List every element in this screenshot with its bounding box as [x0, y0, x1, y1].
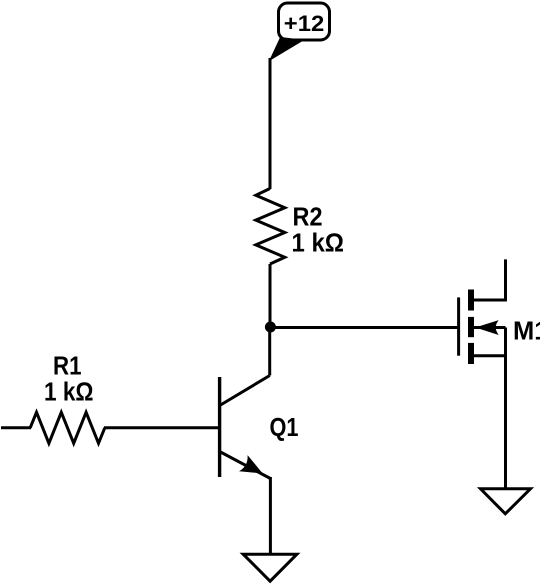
wire M1 source to ground: [504, 328, 507, 490]
resistor R1 left stub wire: [1, 426, 31, 429]
mosfet M1 body arrow: [477, 321, 498, 334]
wire R2 to node: [269, 264, 272, 330]
transistor Q1 base bar: [218, 377, 221, 477]
mosfet M1 gate bar: [457, 297, 460, 355]
wire node to M1 gate: [270, 326, 459, 329]
power label callout tail: [270, 38, 303, 61]
resistor R2: [256, 189, 285, 265]
transistor Q1 emitter diagonal: [221, 452, 271, 479]
node junction dot: [265, 322, 276, 333]
mosfet M1 source wire: [472, 354, 506, 357]
mosfet M1 channel bar middle (body): [468, 317, 474, 337]
wire base from R1 to Q1: [104, 426, 220, 429]
svg-text:1 kΩ: 1 kΩ: [44, 379, 94, 407]
svg-text:+12: +12: [284, 11, 325, 36]
wire +12 to R2: [269, 58, 272, 189]
svg-text:Q1: Q1: [270, 414, 299, 442]
mosfet M1 channel bar bottom (source): [468, 343, 474, 364]
svg-text:R2: R2: [293, 204, 323, 232]
svg-text:M1: M1: [513, 318, 540, 346]
resistor R1: [30, 412, 105, 443]
svg-text:1 kΩ: 1 kΩ: [292, 230, 345, 258]
mosfet M1 body wire: [474, 326, 506, 329]
wire Q1 collector diagonal: [221, 376, 270, 406]
ground under M1: [481, 489, 531, 514]
svg-text:R1: R1: [53, 353, 82, 381]
wire Q1 collector vertical: [268, 327, 271, 376]
mosfet M1 drain wire: [472, 259, 506, 300]
power label +12 box: [279, 3, 330, 40]
transistor Q1 emitter arrow: [241, 457, 262, 473]
ground under Q1: [243, 554, 297, 581]
wire Q1 emitter to ground: [269, 477, 272, 555]
mosfet M1 channel bar top (drain): [468, 290, 474, 311]
